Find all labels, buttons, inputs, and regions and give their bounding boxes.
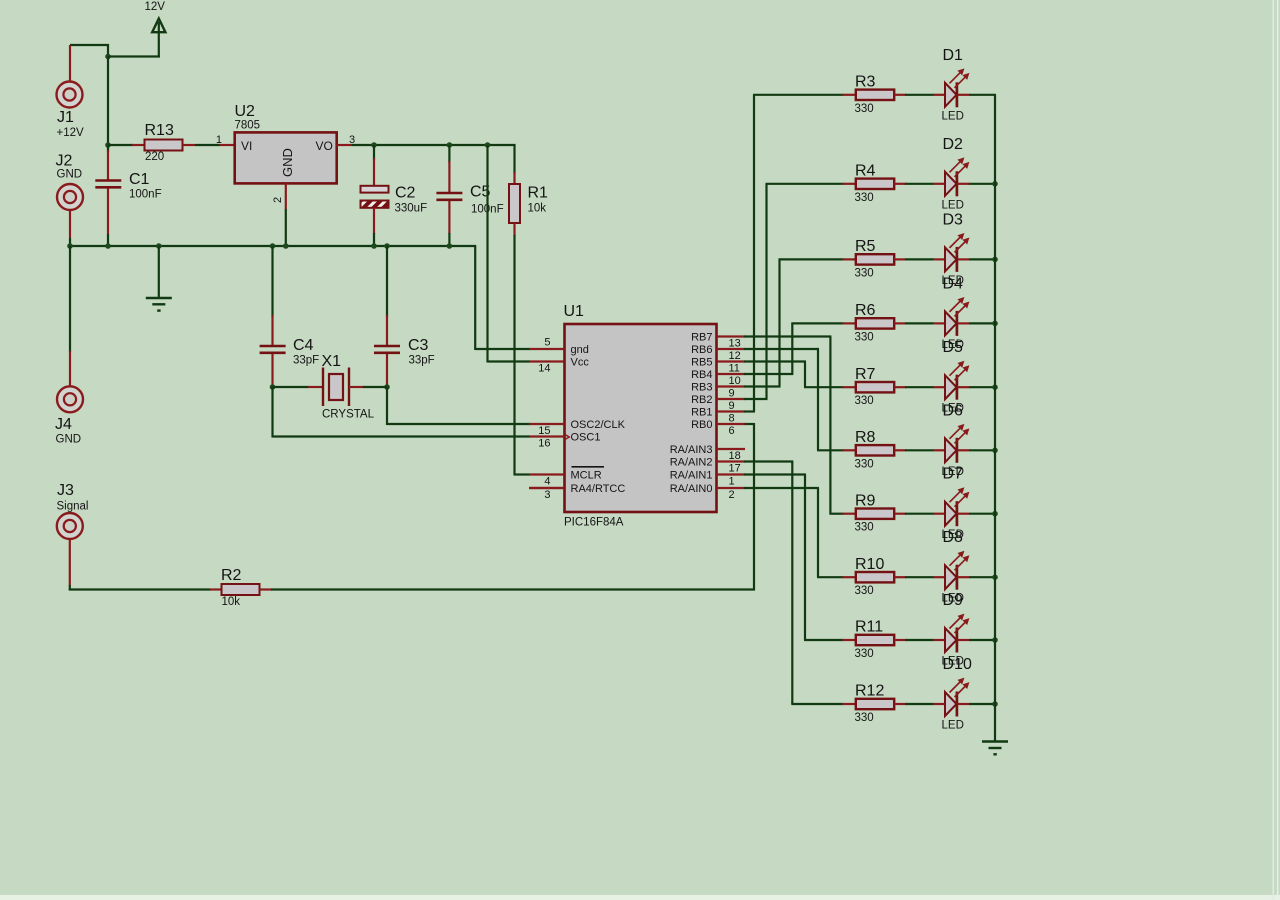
svg-text:VO: VO (316, 139, 333, 153)
label R4 (855, 163, 876, 180)
label X1 (322, 353, 342, 370)
junction bus/J2 (67, 243, 73, 249)
label J4 (55, 416, 72, 433)
junction rail/C5 (447, 142, 453, 148)
svg-text:C3: C3 (408, 337, 429, 354)
pin stub RA/AIN1 of U1 (717, 473, 746, 475)
junction crystal right node (384, 384, 390, 390)
svg-text:9: 9 (729, 400, 735, 412)
wire D10 cathode to bus (969, 703, 996, 705)
svg-text:R3: R3 (855, 74, 876, 91)
wire C3 to crystal node (386, 354, 388, 387)
svg-text:R10: R10 (855, 556, 884, 573)
label GND of J2 (57, 169, 83, 181)
svg-text:RA/AIN0: RA/AIN0 (670, 483, 713, 495)
pin number 1 of RA/AIN1 (729, 476, 735, 488)
pin number 3 of U1 (544, 489, 550, 501)
wire rail to C2 (373, 145, 375, 186)
label 330 of R4 (855, 192, 874, 204)
wire rail to U1 Vcc pin (488, 145, 531, 363)
svg-text:330: 330 (855, 648, 874, 660)
junction bus/D7 (992, 511, 998, 517)
wire D6 cathode to bus (969, 449, 996, 451)
svg-text:D8: D8 (943, 529, 964, 546)
svg-text:R11: R11 (855, 619, 883, 636)
svg-text:C1: C1 (129, 171, 150, 188)
svg-text:6: 6 (729, 425, 735, 437)
pin name RB0 (691, 419, 712, 431)
pin stub RB1 of U1 (717, 410, 746, 412)
wire bus to U1 gnd pin (475, 246, 530, 350)
label R3 (855, 74, 876, 91)
pin name gnd (571, 344, 589, 356)
pin name VO (316, 139, 333, 153)
label 7805 (235, 119, 261, 131)
label C3 (408, 337, 429, 354)
LED D7 (945, 488, 970, 526)
svg-text:U1: U1 (564, 303, 585, 320)
svg-text:330: 330 (855, 522, 874, 534)
pin name RB4 (691, 369, 712, 381)
junction R13/C1 node (105, 142, 111, 148)
label LED of D6 (942, 466, 964, 478)
pin number 17 of RA/AIN2 (729, 463, 741, 475)
pin stub RA/AIN2 of U1 (717, 460, 746, 462)
label 330 of R5 (855, 267, 874, 279)
resistor R11 (843, 635, 946, 645)
label J2 (56, 153, 73, 170)
pin stub RB6 of U1 (717, 348, 746, 350)
svg-text:2: 2 (272, 197, 284, 203)
svg-text:10: 10 (729, 375, 741, 387)
pin number 2 of RA/AIN0 (729, 489, 735, 501)
label CRYSTAL (322, 409, 375, 421)
label R7 (855, 366, 876, 383)
pin stub gnd of U1 (529, 348, 565, 350)
label D10 (943, 656, 972, 673)
resistor R9 (843, 509, 946, 519)
wire D4 cathode to bus (969, 322, 996, 324)
label D7 (943, 466, 964, 483)
pin number 3 of U2 (349, 134, 355, 146)
LED D5 (945, 361, 970, 399)
svg-text:C4: C4 (293, 337, 314, 354)
svg-text:RB5: RB5 (691, 357, 712, 369)
svg-text:C2: C2 (395, 185, 416, 202)
svg-text:330: 330 (855, 103, 874, 115)
svg-text:220: 220 (145, 151, 164, 163)
label J3 (57, 482, 74, 499)
pin number 4 (544, 476, 550, 488)
junction bus/D9 (992, 637, 998, 643)
label J1 (57, 109, 74, 126)
wire J2 to ground bus (69, 238, 71, 247)
wire C2 to ground bus (373, 208, 375, 247)
LED D9 (945, 614, 970, 652)
LED D3 (945, 234, 970, 272)
pin number 18 of RA/AIN3 (729, 450, 741, 462)
label 10k of R2 (222, 596, 241, 608)
svg-text:5: 5 (544, 337, 550, 349)
pin stub OSC1 of U1 (529, 435, 565, 437)
resistor R2 (210, 584, 273, 595)
wire R13 node down to C1 (107, 145, 109, 180)
pin name MCLR (571, 470, 602, 482)
wire D1 cathode to bus (969, 94, 996, 96)
pin name RB1 (691, 407, 712, 419)
svg-text:R2: R2 (221, 567, 242, 584)
LED D2 (945, 158, 970, 196)
svg-text:RA/AIN1: RA/AIN1 (670, 470, 713, 482)
wire crystal to OSC1 (273, 387, 531, 438)
svg-text:330: 330 (855, 267, 874, 279)
label LED of D5 (942, 403, 964, 415)
svg-text:2: 2 (729, 489, 735, 501)
svg-text:D1: D1 (943, 47, 964, 64)
pin name OSC1 (571, 432, 601, 444)
pin number 8 of RB1 (729, 413, 735, 425)
svg-text:J2: J2 (56, 153, 73, 170)
ground symbol right (982, 742, 1008, 755)
svg-text:R5: R5 (855, 238, 876, 255)
label R11 (855, 619, 883, 636)
svg-text:10k: 10k (222, 596, 241, 608)
wire D2 cathode to bus (969, 183, 996, 185)
svg-text:OSC2/CLK: OSC2/CLK (571, 419, 626, 431)
svg-text:R8: R8 (855, 429, 876, 446)
pin stub RA/AIN3 of U1 (717, 448, 746, 450)
junction bus/C2 (371, 243, 377, 249)
label R13 (145, 122, 174, 139)
label U1 (564, 303, 585, 320)
label R10 (855, 556, 884, 573)
svg-text:gnd: gnd (571, 344, 589, 356)
svg-text:18: 18 (729, 450, 741, 462)
label D9 (943, 592, 964, 609)
wire D8 cathode to bus (969, 576, 996, 578)
label R1 (528, 185, 549, 202)
svg-text:J3: J3 (57, 482, 74, 499)
svg-text:D2: D2 (943, 136, 964, 153)
pin stub RA/AIN0 of U1 (717, 487, 746, 489)
junction bus/U2 pin2 (283, 243, 289, 249)
label C1 (129, 171, 150, 188)
capacitor C2 bottom plate (polarised hatch) (361, 201, 389, 208)
label D4 (943, 275, 964, 292)
junction bus/D3 (992, 257, 998, 263)
svg-text:RB3: RB3 (691, 382, 712, 394)
pin name Vcc (571, 357, 590, 369)
label +12V (57, 127, 85, 139)
pin 3 stub of U2 (337, 144, 352, 146)
label C4 (293, 337, 314, 354)
label 330uF (395, 203, 428, 215)
svg-text:J1: J1 (57, 109, 74, 126)
label 33pF of C4 (293, 355, 319, 367)
resistor R6 (843, 318, 946, 328)
wire RB7 to R9 (744, 337, 844, 514)
junction bus/D6 (992, 448, 998, 454)
resistor R1 (509, 144, 520, 236)
junction bus/D4 (992, 321, 998, 327)
label R9 (855, 492, 876, 509)
label R2 (221, 567, 242, 584)
junction bus/C3 branch (384, 243, 390, 249)
pin number 10 of RB4 (729, 375, 741, 387)
resistor R10 (843, 572, 946, 582)
pin name OSC2/CLK (571, 419, 626, 431)
power terminal 12V arrow (152, 19, 165, 33)
ground symbol left (146, 246, 172, 311)
svg-text:13: 13 (729, 338, 741, 350)
junction bus/ground symbol (156, 243, 162, 249)
pin number 6 of RB0 (729, 425, 735, 437)
svg-text:D5: D5 (943, 339, 964, 356)
wire RA/AIN2 to R12 (744, 462, 844, 705)
svg-text:33pF: 33pF (409, 355, 435, 367)
wire RA/AIN1 to R11 (744, 475, 844, 641)
label 330 of R7 (855, 395, 874, 407)
junction bus/C1 (105, 243, 111, 249)
microcontroller U1 body (565, 324, 717, 512)
pin 2 stub of U2 (285, 183, 287, 209)
svg-text:R4: R4 (855, 163, 876, 180)
label D2 (943, 136, 964, 153)
wire RB1 to R3 (744, 95, 844, 412)
pin name VI (241, 139, 252, 153)
pin stub RA4/RTCC of U1 (529, 487, 565, 489)
svg-text:3: 3 (544, 489, 550, 501)
junction bus/C4 branch (270, 243, 276, 249)
capacitor C1 plates (95, 181, 121, 235)
pin name RB3 (691, 382, 712, 394)
pin name RA/AIN0 (670, 483, 713, 495)
label LED of D3 (942, 275, 964, 287)
svg-text:D10: D10 (943, 656, 972, 673)
label R6 (855, 302, 876, 319)
connector J3 Signal (57, 513, 83, 586)
wire C5 to ground bus (448, 201, 450, 247)
svg-text:16: 16 (538, 438, 550, 450)
svg-text:RB2: RB2 (691, 394, 712, 406)
pin number 5 (544, 337, 550, 349)
wire RB5 to R7 (744, 362, 844, 388)
wire D7 cathode to bus (969, 513, 996, 515)
label 33pF of C3 (409, 355, 435, 367)
svg-text:R13: R13 (145, 122, 174, 139)
label 10k of R1 (528, 203, 547, 215)
pin number 9 of RB2 (729, 400, 735, 412)
connector J1 +12V (57, 45, 83, 108)
wire C1 to ground bus (107, 234, 109, 247)
OSC1 clock mark (565, 434, 569, 439)
wire 12V branch to power arrow (108, 22, 160, 57)
LED D1 (945, 69, 970, 107)
svg-text:R1: R1 (528, 185, 549, 202)
label C2 (395, 185, 416, 202)
wire bus to C3 (386, 246, 388, 346)
svg-text:J4: J4 (55, 416, 72, 433)
junction bus/D2 (992, 181, 998, 187)
svg-text:D9: D9 (943, 592, 964, 609)
svg-text:LED: LED (942, 110, 964, 122)
wire bus to J4 (69, 246, 71, 387)
junction 12V node A (105, 54, 111, 60)
svg-text:330: 330 (855, 458, 874, 470)
LED D10 (945, 678, 970, 716)
svg-text:R7: R7 (855, 366, 876, 383)
wire RB4 to R6 (744, 323, 844, 374)
label PIC16F84A (564, 517, 624, 529)
pin number 11 of RB5 (729, 363, 740, 375)
svg-text:7805: 7805 (235, 119, 261, 131)
pin number 13 of RB7 (729, 338, 741, 350)
svg-text:RA/AIN3: RA/AIN3 (670, 444, 713, 456)
wire ground bus (70, 245, 476, 247)
label R12 (855, 683, 884, 700)
resistor R13 (108, 140, 235, 151)
resistor R3 (843, 90, 946, 100)
wire rail to C5 (448, 145, 450, 192)
wire RB6 to R8 (744, 349, 844, 450)
sheet edge right (1273, 0, 1275, 900)
svg-text:330: 330 (855, 192, 874, 204)
label 330 of R8 (855, 458, 874, 470)
pin name RA4/RTCC (571, 483, 626, 495)
label 100nF of C1 (129, 189, 162, 201)
svg-text:12: 12 (729, 350, 741, 362)
svg-text:1: 1 (216, 134, 222, 146)
LED D8 (945, 551, 970, 589)
label GND of J4 (56, 434, 82, 446)
svg-text:1: 1 (729, 476, 735, 488)
junction crystal left node (270, 384, 276, 390)
capacitor C4 plates (260, 346, 286, 353)
svg-text:D6: D6 (943, 402, 964, 419)
svg-text:RB7: RB7 (691, 332, 712, 344)
pin name RB5 (691, 357, 712, 369)
pin name RB2 (691, 394, 712, 406)
label Signal (57, 501, 89, 513)
pin number 16 (538, 438, 550, 450)
svg-text:D4: D4 (943, 275, 964, 292)
svg-text:10k: 10k (528, 203, 547, 215)
pin name RA/AIN3 (670, 444, 713, 456)
label 330 of R10 (855, 585, 874, 597)
label D5 (943, 339, 964, 356)
wire RA/AIN0 to R10 (744, 488, 844, 577)
svg-text:R6: R6 (855, 302, 876, 319)
label LED of D8 (942, 593, 964, 605)
pin stub RA4/RTCC unconnected extension (529, 487, 565, 489)
label D1 (943, 47, 964, 64)
svg-text:LED: LED (942, 199, 964, 211)
resistor R4 (843, 179, 946, 189)
connector J4 GND (57, 386, 83, 412)
svg-text:PIC16F84A: PIC16F84A (564, 517, 624, 529)
wire RB3 to R5 (744, 259, 844, 386)
svg-text:9: 9 (729, 388, 735, 400)
pin number 15 (538, 425, 550, 437)
svg-text:330: 330 (855, 712, 874, 724)
svg-text:D7: D7 (943, 466, 964, 483)
capacitor C2 top plate (361, 186, 389, 193)
svg-text:CRYSTAL: CRYSTAL (322, 409, 375, 421)
svg-text:RB6: RB6 (691, 344, 712, 356)
svg-text:Vcc: Vcc (571, 357, 590, 369)
pin number 2 of U2 (272, 197, 284, 203)
wire 5V rail (352, 144, 516, 146)
pin stub MCLR of U1 (529, 473, 565, 475)
MCLR overline (572, 466, 605, 468)
svg-text:330: 330 (855, 585, 874, 597)
svg-text:LED: LED (942, 720, 964, 732)
wire crystal to OSC2/CLK (387, 387, 530, 425)
wire D5 cathode to bus (969, 386, 996, 388)
pin number 9 of RB3 (729, 388, 735, 400)
label 12V (145, 1, 166, 13)
label D8 (943, 529, 964, 546)
svg-text:X1: X1 (322, 353, 342, 370)
svg-text:RB0: RB0 (691, 419, 712, 431)
wire U2 pin2 to ground bus (285, 209, 287, 247)
resistor R12 (843, 699, 946, 709)
svg-text:14: 14 (538, 363, 550, 375)
svg-text:RB4: RB4 (691, 369, 712, 381)
wire bus to C4 (271, 246, 273, 346)
pin number 12 of RB6 (729, 350, 741, 362)
svg-text:8: 8 (729, 413, 735, 425)
label D3 (943, 211, 964, 228)
label 220 of R13 (145, 151, 164, 163)
label C5 (470, 184, 491, 201)
svg-text:MCLR: MCLR (571, 470, 602, 482)
capacitor C3 plates (374, 346, 400, 353)
pin number 1 of U2 (216, 134, 222, 146)
connector J2 GND (57, 184, 83, 238)
svg-text:330: 330 (855, 331, 874, 343)
svg-text:15: 15 (538, 425, 550, 437)
pin stub Vcc of U1 (529, 360, 565, 362)
sheet edge bottom (0, 895, 1280, 900)
pin name RA/AIN2 (670, 457, 713, 469)
LED D6 (945, 425, 970, 463)
pin name GND rotated (280, 148, 295, 177)
wire R1 to MCLR (515, 235, 531, 476)
svg-text:OSC1: OSC1 (571, 432, 601, 444)
label 330 of R3 (855, 103, 874, 115)
wire D9 cathode to bus (969, 639, 996, 641)
pin stub RB2 of U1 (717, 398, 746, 400)
svg-text:GND: GND (57, 169, 83, 181)
svg-text:11: 11 (729, 363, 740, 375)
regulator U2 body (235, 132, 337, 183)
svg-text:R12: R12 (855, 683, 884, 700)
crystal X1 (273, 368, 388, 407)
svg-text:330uF: 330uF (395, 203, 428, 215)
wire J1 to 12V net corner (70, 44, 109, 58)
wire 12V node to R13 junction (107, 57, 109, 147)
label LED of D2 (942, 199, 964, 211)
pin stub RB7 of U1 (717, 335, 746, 337)
junction bus/D8 (992, 574, 998, 580)
pin stub RB3 of U1 (717, 385, 746, 387)
label R8 (855, 429, 876, 446)
svg-text:+12V: +12V (57, 127, 85, 139)
svg-text:U2: U2 (235, 103, 256, 120)
svg-text:Signal: Signal (57, 501, 89, 513)
label LED of D4 (942, 339, 964, 351)
